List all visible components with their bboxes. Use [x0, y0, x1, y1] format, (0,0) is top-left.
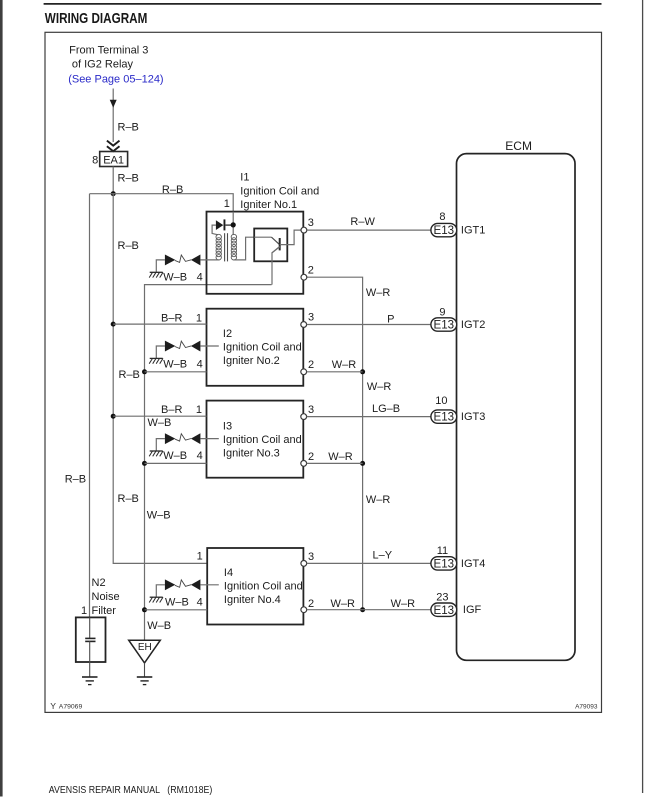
svg-text:3: 3: [308, 312, 314, 324]
wire I3 pin4 return: [145, 462, 207, 464]
svg-text:W–B: W–B: [163, 271, 187, 283]
svg-text:W–R: W–R: [332, 359, 357, 371]
svg-text:R–B: R–B: [162, 184, 183, 196]
wire Q1 emitter to W-B return: [272, 247, 280, 285]
svg-text:W–B: W–B: [147, 620, 171, 632]
igniter I4 box: [207, 548, 303, 625]
ground below N2: [82, 676, 98, 678]
svg-text:E13: E13: [434, 605, 455, 617]
node A junction: [111, 191, 116, 196]
igniter I1 box: [207, 212, 304, 294]
junction R-B bus at I3: [111, 414, 116, 419]
svg-text:Filter: Filter: [92, 605, 117, 617]
svg-text:I1: I1: [240, 172, 249, 184]
svg-text:Igniter No.3: Igniter No.3: [223, 448, 280, 460]
svg-text:IGT4: IGT4: [461, 558, 485, 570]
noise suppressor I4: [149, 579, 219, 602]
svg-text:10: 10: [435, 395, 447, 407]
svg-text:W–B: W–B: [165, 596, 189, 608]
wire from IG2 relay with arrow: [112, 89, 114, 143]
capacitor C1 in N2: [85, 637, 95, 639]
svg-text:1: 1: [196, 312, 202, 324]
junction W-B bus at I2: [142, 369, 147, 374]
junction node I1 pin1: [231, 222, 236, 227]
wire I2 pin3 to IGT2: [307, 324, 431, 326]
pin 3 terminal I3: [301, 414, 307, 420]
svg-text:R–B: R–B: [119, 369, 140, 381]
svg-text:E13: E13: [434, 225, 455, 237]
svg-text:(See Page 05–124): (See Page 05–124): [68, 74, 163, 86]
svg-text:4: 4: [197, 596, 203, 608]
svg-text:Igniter No.1: Igniter No.1: [240, 199, 297, 211]
heading rule: [44, 3, 602, 5]
svg-text:N2: N2: [92, 577, 106, 589]
wire W-B bus from I1 return to EH: [145, 285, 272, 641]
svg-text:B–R: B–R: [161, 404, 182, 416]
junction R-B bus at I2: [111, 322, 116, 327]
wire diode to node: [225, 224, 233, 226]
noise suppressor I2: [149, 341, 219, 364]
pin 3 terminal I4: [301, 561, 307, 567]
svg-text:R–W: R–W: [350, 216, 375, 228]
wire W-R bus: [307, 277, 363, 610]
svg-text:3: 3: [308, 551, 314, 563]
svg-text:A79093: A79093: [575, 703, 598, 710]
svg-text:Igniter No.4: Igniter No.4: [224, 594, 281, 606]
svg-text:IGT3: IGT3: [461, 411, 485, 423]
wire I3 pin2 to W-R bus: [307, 462, 363, 464]
svg-text:I2: I2: [223, 328, 232, 340]
svg-text:4: 4: [197, 271, 203, 283]
wire Q1 collector to pin 3: [280, 230, 301, 245]
svg-text:LG–B: LG–B: [372, 403, 400, 415]
svg-text:P: P: [387, 313, 394, 325]
svg-text:9: 9: [439, 306, 445, 318]
connector E13 IGT1: [431, 223, 457, 236]
svg-text:IGT2: IGT2: [461, 319, 485, 331]
wire R-B left branch down to N2: [89, 194, 91, 618]
svg-text:4: 4: [197, 359, 203, 371]
svg-text:Ignition Coil and: Ignition Coil and: [223, 342, 302, 354]
pin 2 terminal I2: [301, 369, 307, 375]
wire I1 pin3 to IGT1: [307, 229, 431, 231]
wire EH to ground: [144, 663, 146, 677]
svg-text:23: 23: [436, 592, 448, 604]
svg-text:8: 8: [439, 211, 445, 223]
svg-text:W–R: W–R: [328, 451, 353, 463]
wire capacitor to ground: [89, 641, 91, 676]
svg-text:I4: I4: [224, 567, 233, 579]
page right rule: [642, 0, 644, 793]
svg-text:W–B: W–B: [148, 417, 172, 429]
svg-text:B–R: B–R: [161, 312, 182, 324]
svg-text:R–B: R–B: [65, 474, 86, 486]
pin 3 terminal I2: [301, 322, 307, 328]
svg-text:Ignition Coil and: Ignition Coil and: [240, 185, 319, 197]
ground connector EA1: [100, 152, 128, 167]
svg-text:IGF: IGF: [463, 604, 482, 616]
svg-text:E13: E13: [434, 559, 455, 571]
noise suppressor I3: [149, 433, 219, 456]
svg-text:E13: E13: [434, 412, 455, 424]
svg-text:R–B: R–B: [118, 493, 139, 505]
svg-text:3: 3: [308, 217, 314, 229]
svg-text:W–B: W–B: [163, 450, 187, 462]
svg-text:R–B: R–B: [118, 172, 139, 184]
pin 2 terminal I3: [301, 461, 307, 467]
wire I1 pin1 to coil: [232, 212, 234, 235]
svg-text:1: 1: [224, 198, 230, 210]
noise filter N2 box: [76, 617, 106, 662]
svg-text:1: 1: [197, 551, 203, 563]
svg-text:L–Y: L–Y: [373, 550, 393, 562]
diode D1 anode lead: [212, 225, 218, 235]
svg-text:IGT1: IGT1: [461, 225, 485, 237]
svg-text:11: 11: [437, 545, 448, 557]
svg-text:A79069: A79069: [59, 704, 83, 711]
pin 2 terminal I1: [301, 274, 307, 280]
junction W-R bus at I4: [360, 607, 365, 612]
igniter I3 box: [207, 401, 304, 478]
svg-text:1: 1: [81, 605, 87, 617]
svg-text:ECM: ECM: [505, 139, 532, 153]
junction W-B bus at I4: [142, 607, 147, 612]
connector E13 IGF: [431, 603, 457, 616]
wire I2 pin4 return: [145, 371, 207, 373]
svg-text:R–B: R–B: [118, 121, 139, 133]
wire R-B bus: [113, 194, 207, 564]
transistor Q1 symbol: [254, 236, 271, 238]
svg-text:Noise: Noise: [92, 591, 120, 603]
svg-text:2: 2: [308, 598, 314, 610]
svg-text:WIRING DIAGRAM: WIRING DIAGRAM: [45, 11, 148, 27]
svg-text:EH: EH: [138, 642, 152, 653]
svg-text:W–B: W–B: [147, 510, 171, 522]
svg-text:W–B: W–B: [163, 359, 187, 371]
wire N2 pin 1 lead: [89, 617, 91, 638]
wire secondary to transistor base: [234, 237, 254, 260]
diode D1: [216, 220, 223, 230]
svg-text:AVENSIS REPAIR MANUAL (RM101: AVENSIS REPAIR MANUAL (RM1018E): [49, 785, 213, 796]
wire I3 pin1 feed B-R: [113, 415, 206, 417]
svg-text:2: 2: [308, 359, 314, 371]
wire R-B horizontal feed to I1 pin 1: [90, 194, 234, 212]
connector E13 IGT3: [431, 410, 457, 423]
svg-text:of IG2 Relay: of IG2 Relay: [72, 59, 134, 71]
junction W-B bus at I3: [142, 461, 147, 466]
ECM box: [457, 154, 576, 661]
wire I4 pin3 to IGT4: [307, 562, 431, 564]
transformer T1 core: [224, 233, 226, 261]
pin 3 terminal I1: [301, 227, 307, 233]
ground below EH: [137, 676, 153, 678]
wire I4 pin2 to IGF: [307, 609, 431, 611]
svg-text:R–B: R–B: [118, 240, 139, 252]
transformer T1 primary winding: [216, 234, 221, 260]
transformer T1 secondary winding: [231, 234, 236, 260]
wire I3 pin3 to IGT3: [307, 416, 431, 418]
wire I2 pin1 feed B-R: [113, 323, 206, 325]
svg-text:From Terminal 3: From Terminal 3: [69, 44, 148, 56]
svg-text:W–R: W–R: [331, 598, 356, 610]
noise suppressor I1: [149, 255, 219, 278]
pin 2 terminal I4: [301, 607, 307, 613]
svg-text:Ignition Coil and: Ignition Coil and: [223, 434, 302, 446]
svg-text:4: 4: [197, 450, 203, 462]
wire I4 pin4 return: [145, 609, 208, 611]
svg-text:W–R: W–R: [367, 381, 392, 393]
igniter I2 box: [207, 309, 304, 386]
connector E13 IGT2: [431, 318, 457, 331]
page left margin bar: [0, 0, 3, 797]
svg-text:E13: E13: [434, 320, 455, 332]
svg-text:W–R: W–R: [366, 494, 391, 506]
connector E13 IGT4: [431, 557, 457, 570]
svg-text:W–R: W–R: [391, 598, 416, 610]
junction W-R bus at I2: [360, 369, 365, 374]
svg-text:EA1: EA1: [103, 154, 124, 166]
svg-text:W–R: W–R: [366, 287, 391, 299]
wire I2 pin2 to W-R bus: [307, 371, 363, 373]
svg-text:8: 8: [92, 154, 98, 166]
body ground EH: [129, 640, 161, 663]
off-page connector chevrons: [107, 141, 120, 146]
svg-text:2: 2: [308, 451, 314, 463]
transistor Q1 case: [254, 229, 287, 262]
wire EA1 to node A: [112, 167, 114, 194]
diagram frame: [45, 32, 602, 712]
junction W-R bus at I3: [360, 461, 365, 466]
svg-text:2: 2: [308, 264, 314, 276]
svg-text:Y: Y: [50, 701, 56, 711]
svg-text:I3: I3: [223, 421, 232, 433]
svg-text:3: 3: [308, 404, 314, 416]
svg-text:Ignition Coil and: Ignition Coil and: [224, 581, 303, 593]
svg-text:1: 1: [196, 404, 202, 416]
svg-text:Igniter No.2: Igniter No.2: [223, 355, 280, 367]
